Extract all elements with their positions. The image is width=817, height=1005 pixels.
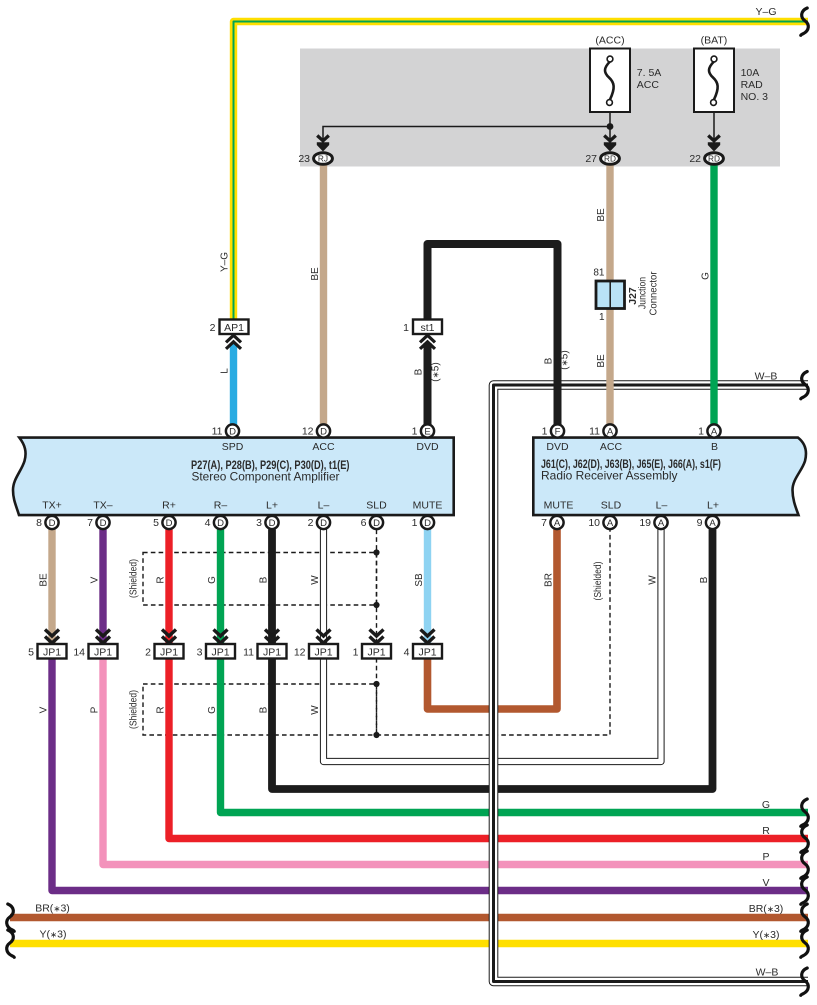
pin circle 19 A L- radio — [654, 516, 667, 529]
pin circle 2 D L- — [317, 516, 330, 529]
svg-text:A: A — [658, 518, 665, 529]
svg-text:NO. 3: NO. 3 — [741, 91, 769, 103]
wire BE beige RD27 to radio ACC — [606, 165, 613, 428]
connector ellipse 22 RD — [705, 153, 724, 165]
thin line fuse ACC output with branch — [323, 112, 610, 148]
connector box JP1 pin11 — [258, 644, 287, 659]
svg-text:W: W — [310, 575, 321, 585]
wire SLD dashed amp vertical — [376, 530, 378, 645]
junction dot fuse branch — [607, 123, 614, 130]
svg-text:R: R — [155, 576, 166, 583]
svg-text:(ACC): (ACC) — [595, 35, 624, 47]
svg-text:11: 11 — [212, 426, 223, 438]
chevron arrow up into st1 — [420, 335, 435, 349]
svg-text:G: G — [762, 799, 770, 811]
svg-text:D: D — [320, 518, 327, 529]
svg-text:A: A — [554, 518, 561, 529]
svg-text:Radio Receiver Assembly: Radio Receiver Assembly — [541, 469, 678, 483]
svg-text:L–: L– — [656, 500, 668, 512]
svg-text:D: D — [49, 518, 56, 529]
svg-text:ACC: ACC — [600, 441, 623, 453]
svg-text:D: D — [320, 427, 327, 438]
pin circle 1 E DVD — [421, 424, 434, 437]
svg-text:BR: BR — [543, 573, 554, 587]
svg-text:(∗5): (∗5) — [560, 350, 571, 369]
pin circle 11 A ACC radio — [603, 424, 616, 437]
pin circle 3 D L+ — [265, 516, 278, 529]
svg-text:SB: SB — [414, 573, 425, 587]
wire B black st1 to amp DVD — [424, 343, 432, 428]
svg-text:4: 4 — [205, 517, 211, 529]
svg-text:SPD: SPD — [222, 441, 244, 453]
svg-text:1: 1 — [403, 322, 409, 334]
svg-text:L: L — [220, 368, 231, 374]
junction dot on SLD — [373, 602, 379, 608]
svg-text:B: B — [699, 576, 710, 583]
svg-text:G: G — [207, 706, 218, 714]
svg-text:19: 19 — [639, 517, 651, 529]
svg-text:JP1: JP1 — [367, 647, 385, 659]
wire SB light blue amp MUTE — [424, 530, 431, 645]
pin circle 11 D SPD — [226, 424, 239, 437]
svg-text:14: 14 — [73, 647, 85, 659]
pin circle 5 D R+ — [162, 516, 175, 529]
svg-text:D: D — [424, 518, 431, 529]
svg-text:BE: BE — [596, 208, 607, 222]
svg-text:2: 2 — [210, 322, 216, 334]
wire L blue AP1 to amp SPD — [230, 343, 237, 428]
svg-text:ACC: ACC — [312, 441, 335, 453]
svg-text:P: P — [762, 851, 769, 863]
svg-text:MUTE: MUTE — [413, 500, 443, 512]
svg-text:B: B — [258, 576, 269, 583]
wire G green R- to right edge — [221, 658, 809, 813]
svg-text:BE: BE — [310, 267, 321, 281]
svg-text:11: 11 — [589, 426, 600, 438]
svg-text:7: 7 — [87, 517, 93, 529]
svg-text:2: 2 — [145, 647, 151, 659]
svg-text:1: 1 — [698, 426, 704, 438]
component box U1 Stereo Component Amplifier — [13, 438, 454, 515]
svg-text:DVD: DVD — [546, 441, 569, 453]
wire W white L- to radio L- — [324, 530, 662, 762]
arrowhead into RD22 — [708, 136, 720, 152]
svg-text:JP1: JP1 — [314, 647, 332, 659]
svg-text:V: V — [38, 706, 49, 713]
svg-text:A: A — [607, 427, 614, 438]
svg-text:(BAT): (BAT) — [701, 35, 728, 47]
svg-text:12: 12 — [302, 426, 314, 438]
shield dashed box lower (Shielded) — [143, 684, 377, 735]
svg-text:JP1: JP1 — [160, 647, 178, 659]
wire SLD dashed link to radio — [377, 530, 611, 736]
wire P pink TX- to right edge — [103, 658, 808, 865]
svg-text:B: B — [544, 357, 555, 364]
svg-text:(∗5): (∗5) — [431, 362, 442, 381]
svg-text:BE: BE — [38, 573, 49, 587]
connector box st1 — [413, 320, 442, 335]
svg-text:SLD: SLD — [366, 500, 387, 512]
svg-text:A: A — [709, 518, 716, 529]
svg-text:Y(∗3): Y(∗3) — [40, 929, 67, 941]
svg-text:1: 1 — [599, 312, 605, 323]
svg-text:3: 3 — [256, 517, 262, 529]
shield dashed box upper (Shielded) — [143, 553, 377, 606]
svg-text:Y–G: Y–G — [220, 252, 231, 272]
svg-text:L+: L+ — [707, 500, 719, 512]
connector box JP1 pin1 — [362, 644, 391, 659]
svg-text:ACC: ACC — [637, 79, 660, 91]
svg-text:DVD: DVD — [416, 441, 439, 453]
svg-text:B: B — [258, 706, 269, 713]
pin circle 1 A B radio — [707, 424, 720, 437]
pin circle 1 F DVD radio — [551, 424, 564, 437]
svg-text:AP1: AP1 — [224, 322, 244, 334]
junction dot on SLD — [373, 549, 379, 555]
svg-text:6: 6 — [361, 517, 367, 529]
arrowhead into RJ23 — [317, 136, 329, 152]
svg-text:JP1: JP1 — [43, 647, 61, 659]
wire B black L+ to radio L+ — [272, 530, 713, 790]
svg-text:1: 1 — [412, 426, 418, 438]
connector box JP1 pin12 — [309, 644, 338, 659]
wire Y(*3) bottom full-width — [10, 940, 808, 947]
wire G green amp R- — [217, 530, 224, 645]
svg-text:27: 27 — [585, 153, 597, 165]
connector box AP1 — [220, 320, 249, 335]
wire V purple amp TX- — [99, 530, 106, 645]
fuse block gray background — [300, 49, 780, 167]
svg-text:A: A — [711, 427, 718, 438]
svg-text:BR(∗3): BR(∗3) — [35, 903, 70, 915]
svg-text:G: G — [207, 576, 218, 584]
svg-text:2: 2 — [308, 517, 314, 529]
svg-text:1: 1 — [412, 517, 418, 529]
svg-text:Connector: Connector — [648, 271, 660, 315]
svg-text:JP1: JP1 — [418, 647, 436, 659]
connector box JP1 pin2 — [155, 644, 184, 659]
chevron arrows down into JP1 row — [45, 630, 435, 644]
svg-text:22: 22 — [689, 153, 701, 165]
svg-text:9: 9 — [697, 517, 703, 529]
svg-text:V: V — [762, 877, 769, 889]
svg-text:(Shielded): (Shielded) — [129, 690, 140, 729]
svg-text:RJ: RJ — [318, 153, 328, 163]
svg-text:TX–: TX– — [93, 500, 112, 512]
connector box JP1 pin4 — [413, 644, 442, 659]
pin circle 7 D TX- — [96, 516, 109, 529]
wire G green RD22 to radio B — [710, 165, 717, 428]
arrowhead into RD27 — [604, 136, 616, 152]
svg-text:BE: BE — [596, 354, 607, 368]
svg-text:W–B: W–B — [755, 371, 778, 383]
svg-text:JP1: JP1 — [263, 647, 281, 659]
pin circle 6 D SLD — [370, 516, 383, 529]
svg-text:TX+: TX+ — [42, 500, 62, 512]
connector ellipse 23 RJ — [314, 153, 333, 165]
svg-text:D: D — [269, 518, 276, 529]
svg-text:D: D — [373, 518, 380, 529]
svg-text:3: 3 — [197, 647, 203, 659]
svg-text:B: B — [711, 441, 718, 453]
wire BE beige RJ to amp ACC — [320, 165, 327, 428]
connector box JP1 pin14 — [89, 644, 118, 659]
svg-text:D: D — [100, 518, 107, 529]
svg-text:D: D — [166, 518, 173, 529]
svg-text:R–: R– — [214, 500, 228, 512]
wire BR brown MUTE jumper to radio MUTE — [428, 530, 558, 710]
svg-text:11: 11 — [243, 647, 254, 659]
wire B black amp L+ — [268, 530, 276, 645]
svg-text:Stereo Component Amplifier: Stereo Component Amplifier — [192, 470, 340, 484]
svg-text:L–: L– — [318, 500, 330, 512]
svg-text:A: A — [607, 518, 614, 529]
component box U2 Radio Receiver Assembly — [533, 438, 806, 515]
svg-text:W: W — [647, 575, 658, 585]
thin line fuse BAT output — [713, 112, 715, 148]
svg-text:5: 5 — [153, 517, 159, 529]
svg-text:(Shielded): (Shielded) — [593, 562, 604, 601]
svg-text:Y(∗3): Y(∗3) — [753, 929, 780, 941]
wire W-B white-black — [494, 385, 809, 982]
svg-text:12: 12 — [294, 647, 306, 659]
svg-text:SLD: SLD — [601, 500, 622, 512]
wire R red amp R+ — [165, 530, 172, 645]
wire Y-G yellow-green from right edge down to AP1 — [234, 22, 809, 321]
svg-text:F: F — [555, 427, 561, 438]
svg-text:st1: st1 — [420, 322, 434, 334]
chevron arrow up into AP1 — [226, 335, 241, 349]
pin circle 4 D R- — [214, 516, 227, 529]
svg-text:D: D — [217, 518, 224, 529]
wire V purple TX+ to right edge — [52, 658, 808, 891]
svg-text:E: E — [424, 427, 430, 438]
svg-text:RD: RD — [604, 153, 616, 163]
wire W white amp L- — [320, 530, 327, 645]
connector box JP1 pin3 — [206, 644, 235, 659]
svg-text:G: G — [700, 272, 711, 280]
svg-text:R: R — [155, 706, 166, 713]
pin circle 9 A L+ radio — [706, 516, 719, 529]
svg-text:D: D — [229, 427, 236, 438]
svg-text:8: 8 — [36, 517, 42, 529]
connector ellipse 27 RD — [601, 153, 620, 165]
svg-text:1: 1 — [542, 426, 548, 438]
svg-text:10A: 10A — [741, 67, 760, 79]
svg-text:(Shielded): (Shielded) — [129, 559, 140, 598]
svg-text:R+: R+ — [162, 500, 176, 512]
fuse F2 10A RAD NO.3 — [694, 49, 734, 113]
svg-text:P: P — [89, 706, 100, 713]
pin circle 1 D MUTE — [421, 516, 434, 529]
svg-text:R: R — [762, 825, 770, 837]
wire B black st1 loop to radio DVD — [428, 244, 558, 428]
svg-text:L+: L+ — [266, 500, 278, 512]
svg-text:W–B: W–B — [756, 967, 779, 979]
junction dot on SLD — [373, 732, 379, 738]
junction connector J27 — [596, 281, 625, 309]
svg-text:RD: RD — [708, 153, 720, 163]
break squiggles left edge — [7, 904, 14, 931]
svg-text:10: 10 — [588, 517, 600, 529]
pin circle 7 A MUTE radio — [550, 516, 563, 529]
svg-text:5: 5 — [28, 647, 34, 659]
svg-text:81: 81 — [593, 268, 605, 279]
svg-text:MUTE: MUTE — [544, 500, 574, 512]
svg-text:JP1: JP1 — [211, 647, 229, 659]
svg-text:1: 1 — [353, 647, 359, 659]
svg-text:7: 7 — [541, 517, 547, 529]
wire R red R+ to right edge — [169, 658, 808, 839]
svg-text:V: V — [89, 576, 100, 583]
svg-text:4: 4 — [404, 647, 410, 659]
svg-text:23: 23 — [298, 153, 310, 165]
junction dot on SLD — [373, 681, 379, 687]
pin circle 10 A SLD radio — [603, 516, 616, 529]
svg-text:B: B — [414, 368, 425, 375]
pin circle 12 D ACC — [317, 424, 330, 437]
connector box JP1 pin5 — [38, 644, 67, 659]
svg-text:Y–G: Y–G — [755, 6, 776, 18]
svg-text:7. 5A: 7. 5A — [637, 67, 662, 79]
svg-text:RAD: RAD — [741, 79, 764, 91]
svg-text:W: W — [310, 705, 321, 715]
fuse F1 7.5A ACC — [590, 49, 630, 113]
svg-text:BR(∗3): BR(∗3) — [749, 903, 784, 915]
wire BE beige amp TX+ — [48, 530, 55, 645]
pin circle 8 D TX+ — [45, 516, 58, 529]
wire BR(*3) bottom full-width — [10, 914, 808, 921]
svg-text:JP1: JP1 — [94, 647, 112, 659]
